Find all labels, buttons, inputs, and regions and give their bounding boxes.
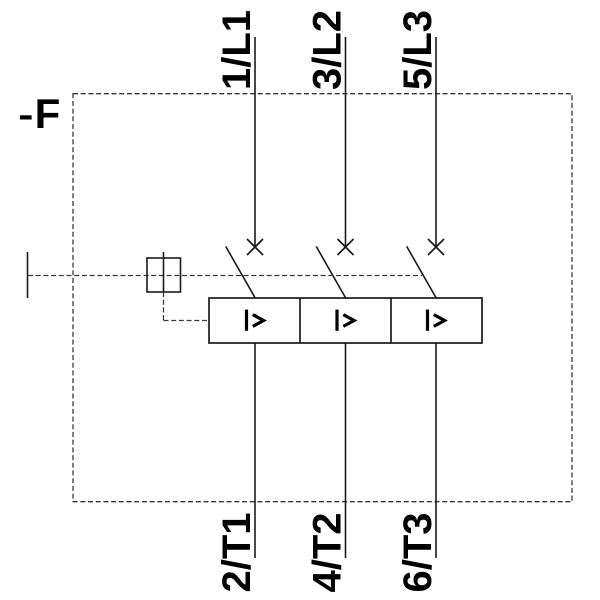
overcurrent symbol I> pole 1 [247,310,264,331]
trip unit divider 1 [299,298,301,343]
handle bar [27,252,29,298]
svg-text:4/T2: 4/T2 [306,512,350,592]
actuator square [147,258,181,292]
label -F (hyphen) [20,115,32,119]
breaker blade pole 2 [316,246,346,298]
svg-text:3/L2: 3/L2 [306,10,350,90]
contact cross pole 1 [247,239,263,255]
svg-text:F: F [35,90,61,137]
wire L1 top [254,37,256,247]
wire T3 bottom [435,343,437,558]
contact cross pole 3 [428,239,444,255]
wire T2 bottom [345,343,347,558]
breaker blade pole 3 [407,246,437,298]
wire L2 top [345,37,347,247]
overcurrent symbol I> pole 3 [428,310,445,331]
contact cross pole 2 [338,239,354,255]
trip unit divider 2 [390,298,392,343]
svg-text:2/T1: 2/T1 [215,512,259,592]
overcurrent symbol I> pole 2 [337,310,354,331]
svg-text:1/L1: 1/L1 [215,10,259,90]
wire L3 top [435,37,437,247]
wire T1 bottom [254,343,256,558]
vertical line through actuator square [163,252,165,292]
dashed connector square to trip box (vertical) [163,292,165,321]
svg-text:6/T3: 6/T3 [396,512,440,592]
trip unit box [209,298,482,343]
dashed connector square to trip box (horizontal) [164,320,210,322]
enclosure dashed boundary [73,94,572,502]
mechanical linkage dashed line [28,275,422,277]
svg-text:5/L3: 5/L3 [396,10,440,90]
breaker blade pole 1 [226,246,256,298]
